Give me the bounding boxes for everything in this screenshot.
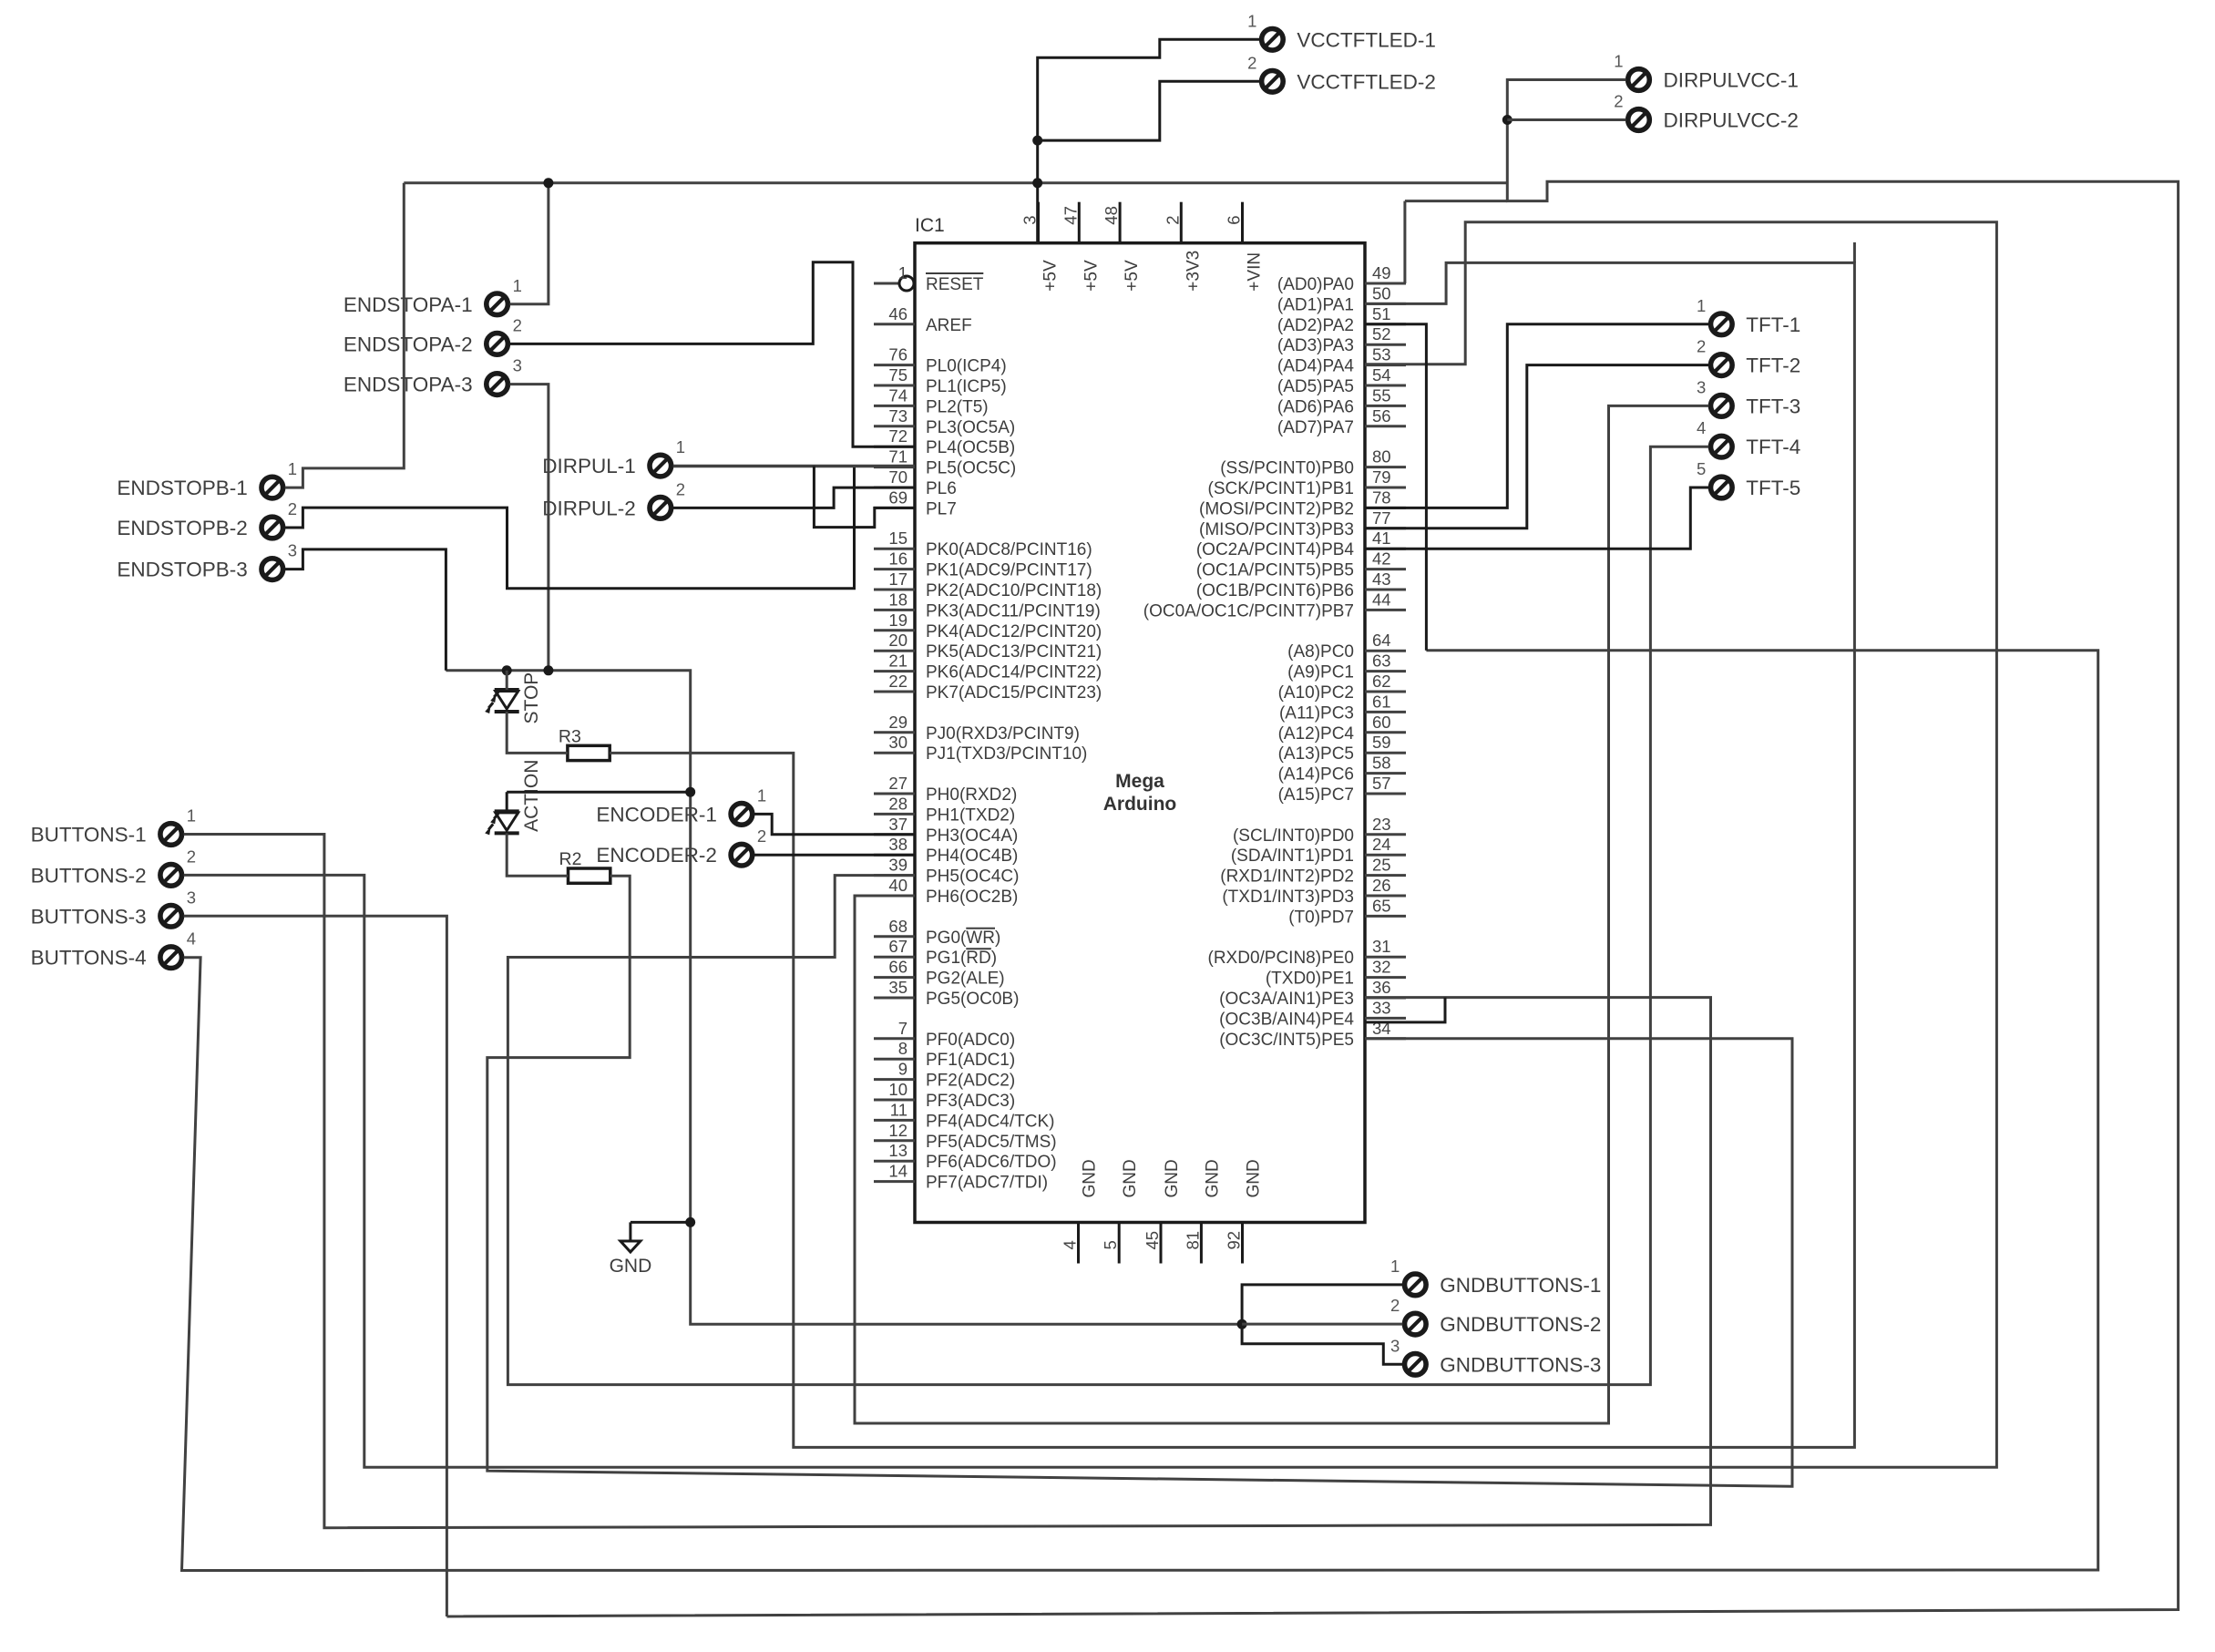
svg-text:7: 7	[898, 1019, 908, 1038]
svg-text:(A8)PC0: (A8)PC0	[1287, 642, 1354, 662]
svg-text:PF1(ADC1): PF1(ADC1)	[926, 1051, 1015, 1070]
svg-text:(OC1A/PCINT5)PB5: (OC1A/PCINT5)PB5	[1196, 561, 1354, 580]
svg-text:(OC1B/PCINT6)PB6: (OC1B/PCINT6)PB6	[1196, 581, 1354, 600]
svg-text:72: 72	[888, 426, 908, 446]
pin 29 PJ0(RXD3/PCINT9) left stub	[874, 731, 915, 734]
connector GNDBUTTONS-3	[1390, 1336, 1601, 1376]
pin 57 (A15)PC7 right stub	[1365, 793, 1406, 795]
svg-text:58: 58	[1372, 754, 1391, 773]
svg-text:ENDSTOPA-3: ENDSTOPA-3	[344, 374, 473, 396]
svg-text:1: 1	[898, 263, 908, 282]
svg-text:ENDSTOPA-2: ENDSTOPA-2	[344, 333, 473, 355]
connector ENDSTOPA-1	[344, 276, 522, 316]
pin 3 +5V top stub	[1037, 202, 1040, 243]
wire pin 51 down to pin64 line	[1365, 324, 1426, 651]
connector GNDBUTTONS-2	[1390, 1296, 1601, 1336]
svg-text:1: 1	[1247, 11, 1256, 30]
svg-text:ENDSTOPB-3: ENDSTOPB-3	[117, 559, 247, 581]
svg-text:PH0(RXD2): PH0(RXD2)	[926, 785, 1017, 805]
junction VCCTFTLED-2	[1032, 136, 1042, 146]
svg-text:PH4(OC4B): PH4(OC4B)	[926, 847, 1018, 866]
wire stub above pin50 junction	[1853, 242, 1856, 262]
svg-text:64: 64	[1372, 631, 1391, 650]
svg-text:9: 9	[898, 1060, 908, 1079]
pin 26 (TXD1/INT3)PD3 right stub	[1365, 895, 1406, 898]
svg-text:): )	[995, 929, 1000, 948]
svg-text:VCCTFTLED-2: VCCTFTLED-2	[1297, 70, 1436, 93]
svg-text:45: 45	[1143, 1231, 1162, 1250]
svg-text:PK6(ADC14/PCINT22): PK6(ADC14/PCINT22)	[926, 663, 1102, 682]
svg-text:(SCL/INT0)PD0: (SCL/INT0)PD0	[1233, 826, 1354, 846]
wire STOP LED to R3	[507, 712, 568, 753]
pin 36 (OC3A/AIN1)PE3 right stub	[1365, 997, 1406, 1000]
svg-text:TFT-2: TFT-2	[1746, 354, 1800, 377]
svg-text:55: 55	[1372, 385, 1391, 405]
svg-text:TFT-4: TFT-4	[1746, 436, 1800, 458]
pin 6 +VIN top stub	[1241, 202, 1244, 243]
pin 32 (TXD0)PE1 right stub	[1365, 976, 1406, 979]
svg-text:(AD3)PA3: (AD3)PA3	[1277, 336, 1354, 355]
pin 72 PL4(OC5B) left stub	[874, 446, 915, 448]
wire down to ACTION LED	[506, 792, 508, 811]
wire ENDSTOPB-2 riser	[285, 467, 855, 589]
svg-text:+5V: +5V	[1082, 260, 1101, 292]
svg-text:17: 17	[888, 569, 908, 589]
pin 53 (AD4)PA4 right stub	[1365, 364, 1406, 366]
resistor R2	[569, 868, 610, 883]
pin 7 PF0(ADC0) left stub	[874, 1037, 915, 1040]
svg-text:75: 75	[888, 365, 908, 385]
pin 2 +3V3 top stub	[1180, 202, 1183, 243]
svg-text:3: 3	[513, 356, 522, 375]
pin 21 PK6(ADC14/PCINT22) left stub	[874, 670, 915, 672]
svg-text:13: 13	[888, 1141, 908, 1160]
pin 92 GND bottom stub	[1241, 1223, 1244, 1264]
svg-text:18: 18	[888, 590, 908, 609]
svg-text:4: 4	[187, 929, 196, 949]
pin 68 PG0(!WR!) left stub	[874, 935, 915, 938]
junction ENDSTOPA-3/ground rail	[543, 665, 553, 675]
svg-text:GND: GND	[1163, 1159, 1182, 1197]
connector BUTTONS-3	[31, 888, 196, 928]
svg-text:PL3(OC5A): PL3(OC5A)	[926, 418, 1015, 437]
wire DIRPULVCC-2	[1507, 118, 1625, 121]
pin 33 (OC3B/AIN4)PE4 right stub	[1365, 1017, 1406, 1020]
svg-text:1: 1	[1614, 52, 1623, 71]
svg-text:63: 63	[1372, 652, 1391, 671]
svg-text:22: 22	[888, 672, 908, 691]
svg-text:28: 28	[888, 794, 908, 813]
pin 64 (A8)PC0 right stub	[1365, 650, 1406, 652]
pin 11 PF4(ADC4/TCK) left stub	[874, 1119, 915, 1122]
svg-text:PL2(T5): PL2(T5)	[926, 397, 989, 416]
svg-text:2: 2	[1247, 53, 1256, 72]
svg-text:PF3(ADC3): PF3(ADC3)	[926, 1092, 1015, 1111]
pin 55 (AD6)PA6 right stub	[1365, 405, 1406, 407]
svg-text:49: 49	[1372, 263, 1391, 282]
pin 16 PK1(ADC9/PCINT17) left stub	[874, 568, 915, 570]
svg-text:73: 73	[888, 406, 908, 426]
svg-text:RESET: RESET	[926, 275, 984, 294]
svg-text:2: 2	[1697, 337, 1706, 356]
wire ACTION LED to R2	[507, 833, 568, 876]
svg-text:R3: R3	[559, 726, 581, 746]
svg-text:DIRPUL-2: DIRPUL-2	[542, 497, 636, 519]
wire pin 39 to TFT-4	[508, 446, 1708, 1384]
svg-text:ENDSTOPA-1: ENDSTOPA-1	[344, 293, 473, 316]
pin 49 (AD0)PA0 right stub	[1365, 282, 1406, 285]
svg-text:(TXD1/INT3)PD3: (TXD1/INT3)PD3	[1222, 888, 1354, 907]
svg-text:PL0(ICP4): PL0(ICP4)	[926, 357, 1007, 376]
pin 12 PF5(ADC5/TMS) left stub	[874, 1139, 915, 1142]
pin 22 PK7(ADC15/PCINT23) left stub	[874, 691, 915, 693]
svg-text:70: 70	[888, 467, 908, 487]
connector BUTTONS-4	[31, 929, 196, 970]
wire ground rail	[446, 671, 1242, 1324]
svg-text:37: 37	[888, 815, 908, 834]
svg-text:1: 1	[757, 785, 766, 805]
junction STOP LED/ground rail	[502, 665, 512, 675]
svg-text:(A9)PC1: (A9)PC1	[1287, 663, 1354, 682]
svg-text:24: 24	[1372, 835, 1391, 854]
connector VCCTFTLED-1	[1247, 11, 1436, 51]
connector ENCODER-2	[596, 826, 766, 867]
pin 28 PH1(TXD2) left stub	[874, 813, 915, 816]
wire pin 33 jog to pin 36 line	[1365, 998, 1445, 1022]
svg-text:3: 3	[288, 541, 297, 560]
svg-text:BUTTONS-4: BUTTONS-4	[31, 947, 147, 970]
svg-text:2: 2	[676, 479, 685, 498]
pin 5 GND bottom stub	[1118, 1223, 1121, 1264]
svg-text:PL6: PL6	[926, 479, 957, 498]
svg-text:STOP: STOP	[521, 672, 542, 724]
svg-text:(A15)PC7: (A15)PC7	[1278, 785, 1354, 805]
svg-text:16: 16	[888, 549, 908, 569]
svg-text:(A10)PC2: (A10)PC2	[1278, 683, 1354, 703]
svg-text:(RXD1/INT2)PD2: (RXD1/INT2)PD2	[1220, 867, 1354, 887]
svg-text:56: 56	[1372, 406, 1391, 426]
pin 20 PK5(ADC13/PCINT21) left stub	[874, 650, 915, 652]
pin 35 PG5(OC0B) left stub	[874, 997, 915, 1000]
svg-text:47: 47	[1061, 206, 1080, 225]
pin 14 PF7(ADC7/TDI) left stub	[874, 1180, 915, 1183]
svg-text:57: 57	[1372, 774, 1391, 793]
svg-text:39: 39	[888, 856, 908, 875]
pin 62 (A10)PC2 right stub	[1365, 691, 1406, 693]
svg-text:BUTTONS-2: BUTTONS-2	[31, 864, 147, 887]
svg-text:Arduino: Arduino	[1103, 794, 1176, 815]
svg-text:(AD0)PA0: (AD0)PA0	[1277, 275, 1354, 294]
svg-text:46: 46	[888, 304, 908, 323]
svg-text:35: 35	[888, 978, 908, 997]
svg-text:66: 66	[888, 958, 908, 977]
svg-text:PG0(: PG0(	[926, 929, 967, 948]
wire GNDBUTTONS-2	[1242, 1323, 1402, 1326]
svg-text:(SDA/INT1)PD1: (SDA/INT1)PD1	[1231, 847, 1354, 866]
svg-text:PK0(ADC8/PCINT16): PK0(ADC8/PCINT16)	[926, 540, 1092, 559]
svg-text:TFT-3: TFT-3	[1746, 395, 1800, 417]
svg-text:(AD7)PA7: (AD7)PA7	[1277, 418, 1354, 437]
wire ENDSTOPA-2 to pin 72	[510, 262, 915, 447]
pin 54 (AD5)PA5 right stub	[1365, 385, 1406, 387]
svg-text:ENDSTOPB-1: ENDSTOPB-1	[117, 477, 247, 499]
svg-text:TFT-5: TFT-5	[1746, 477, 1800, 499]
wire GND symbol to rail	[631, 1221, 691, 1224]
svg-text:PK1(ADC9/PCINT17): PK1(ADC9/PCINT17)	[926, 561, 1092, 580]
svg-text:33: 33	[1372, 998, 1391, 1017]
svg-text:GND: GND	[610, 1256, 652, 1277]
svg-text:2: 2	[1614, 92, 1623, 111]
pin 51 (AD2)PA2 right stub	[1365, 323, 1406, 325]
wire DIRPULVCC-1 / +VIN rail to BUTTONS-3	[446, 80, 2178, 1617]
svg-text:1: 1	[513, 276, 522, 295]
svg-text:68: 68	[888, 917, 908, 936]
pin 46 AREF left stub	[874, 323, 915, 325]
svg-text:3: 3	[1697, 377, 1706, 396]
connector TFT-1	[1697, 296, 1800, 336]
pin 17 PK2(ADC10/PCINT18) left stub	[874, 589, 915, 591]
wire VCCTFTLED-2	[1038, 81, 1260, 140]
svg-text:11: 11	[890, 1100, 908, 1119]
pin 41 (OC2A/PCINT4)PB4 right stub	[1365, 548, 1406, 550]
pin 74 PL2(T5) left stub	[874, 405, 915, 407]
svg-text:51: 51	[1372, 304, 1391, 323]
svg-text:ENDSTOPB-2: ENDSTOPB-2	[117, 517, 247, 539]
pin 18 PK3(ADC11/PCINT19) left stub	[874, 609, 915, 611]
svg-text:(A14)PC6: (A14)PC6	[1278, 765, 1354, 785]
svg-text:54: 54	[1372, 365, 1391, 385]
svg-text:PL1(ICP5): PL1(ICP5)	[926, 377, 1007, 396]
svg-text:41: 41	[1372, 528, 1391, 548]
LED STOP	[496, 692, 518, 710]
svg-text:PG5(OC0B): PG5(OC0B)	[926, 990, 1019, 1009]
pin 40 PH6(OC2B) left stub	[874, 895, 915, 898]
svg-text:GND: GND	[1081, 1159, 1100, 1197]
svg-text:10: 10	[888, 1080, 908, 1099]
pin 80 (SS/PCINT0)PB0 right stub	[1365, 466, 1406, 468]
svg-text:(T0)PD7: (T0)PD7	[1288, 908, 1354, 927]
wire DIRPUL-2 to pin 70	[673, 487, 915, 508]
svg-text:2: 2	[1163, 215, 1182, 224]
svg-text:38: 38	[888, 835, 908, 854]
pin 13 PF6(ADC6/TDO) left stub	[874, 1160, 915, 1163]
svg-text:19: 19	[888, 611, 908, 630]
svg-text:Mega: Mega	[1115, 771, 1164, 792]
svg-text:2: 2	[187, 847, 196, 866]
junction GNDBUTTONS-2	[1237, 1319, 1247, 1329]
svg-text:PK4(ADC12/PCINT20): PK4(ADC12/PCINT20)	[926, 622, 1102, 641]
junction DIRPULVCC-2	[1502, 115, 1513, 125]
pin 8 PF1(ADC1) left stub	[874, 1058, 915, 1061]
pin 50 (AD1)PA1 right stub	[1365, 303, 1406, 305]
pin 67 PG1(!RD!) left stub	[874, 956, 915, 959]
connector DIRPUL-2	[542, 479, 685, 519]
pin 78 (MOSI/PCINT2)PB2 right stub	[1365, 507, 1406, 509]
LED ACTION	[496, 813, 518, 831]
svg-text:DIRPULVCC-2: DIRPULVCC-2	[1664, 109, 1799, 132]
svg-text:(OC3A/AIN1)PE3: (OC3A/AIN1)PE3	[1219, 990, 1354, 1009]
svg-text:76: 76	[888, 345, 908, 364]
svg-text:DIRPULVCC-1: DIRPULVCC-1	[1664, 69, 1799, 92]
svg-text:12: 12	[888, 1121, 908, 1140]
svg-text:4: 4	[1697, 418, 1706, 437]
svg-text:PK7(ADC15/PCINT23): PK7(ADC15/PCINT23)	[926, 683, 1102, 703]
pin 9 PF2(ADC2) left stub	[874, 1078, 915, 1081]
svg-text:ENCODER-2: ENCODER-2	[596, 844, 717, 867]
pin 75 PL1(ICP5) left stub	[874, 385, 915, 387]
svg-text:(AD1)PA1: (AD1)PA1	[1277, 295, 1354, 314]
svg-text:PF7(ADC7/TDI): PF7(ADC7/TDI)	[926, 1174, 1048, 1193]
connector ENDSTOPB-1	[117, 459, 297, 499]
svg-text:PG2(ALE): PG2(ALE)	[926, 970, 1005, 989]
svg-text:GND: GND	[1121, 1159, 1140, 1197]
svg-text:PH5(OC4C): PH5(OC4C)	[926, 867, 1019, 887]
svg-text:PF2(ADC2): PF2(ADC2)	[926, 1072, 1015, 1091]
wire ENCODER-1 to pin 37	[754, 814, 915, 834]
svg-text:(OC0A/OC1C/PCINT7)PB7: (OC0A/OC1C/PCINT7)PB7	[1143, 601, 1354, 621]
pin 39 PH5(OC4C) left stub	[874, 874, 915, 877]
wire ENDSTOPA-1 to +5V rail	[404, 183, 549, 304]
svg-text:3: 3	[1390, 1336, 1400, 1355]
wire TFT-5 to pin 41	[1365, 487, 1708, 549]
wire R2 to pin 34	[487, 876, 1792, 1486]
svg-text:5: 5	[1101, 1240, 1120, 1249]
svg-text:BUTTONS-1: BUTTONS-1	[31, 824, 147, 847]
svg-text:4: 4	[1061, 1240, 1080, 1249]
wire pin 40 to TFT-3	[855, 405, 1708, 1423]
ground symbol GND	[629, 1222, 631, 1241]
svg-text:2: 2	[513, 315, 522, 334]
pin 44 (OC0A/OC1C/PCINT7)PB7 right stub	[1365, 609, 1406, 611]
pin 25 (RXD1/INT2)PD2 right stub	[1365, 874, 1406, 877]
wire ENDSTOPB-3	[285, 549, 446, 671]
pin 66 PG2(ALE) left stub	[874, 976, 915, 979]
pin 37 PH3(OC4A) left stub	[874, 833, 915, 836]
svg-text:WR: WR	[966, 929, 995, 948]
svg-text:1: 1	[288, 459, 297, 478]
svg-text:+5V: +5V	[1041, 260, 1061, 292]
svg-text:(AD5)PA5: (AD5)PA5	[1277, 377, 1354, 396]
svg-text:3: 3	[187, 888, 196, 907]
svg-text:27: 27	[888, 774, 908, 793]
svg-text:1: 1	[1390, 1257, 1400, 1276]
svg-text:PK3(ADC11/PCINT19): PK3(ADC11/PCINT19)	[926, 601, 1101, 621]
pin 61 (A11)PC3 right stub	[1365, 711, 1406, 713]
wire BUTTONS-1 to pin 36	[184, 835, 1711, 1528]
svg-text:67: 67	[888, 937, 908, 956]
svg-text:65: 65	[1372, 896, 1391, 915]
connector TFT-3	[1697, 377, 1800, 417]
wire +5V rail to ENDSTOPB-1	[285, 183, 405, 487]
pin 79 (SCK/PCINT1)PB1 right stub	[1365, 487, 1406, 489]
pin 23 (SCL/INT0)PD0 right stub	[1365, 833, 1406, 836]
connector TFT-5	[1697, 459, 1800, 499]
wire BUTTONS-2 to pin 53	[184, 222, 1997, 1467]
svg-text:42: 42	[1372, 549, 1391, 569]
svg-text:53: 53	[1372, 345, 1391, 364]
connector VCCTFTLED-2	[1247, 53, 1436, 93]
connector ENDSTOPB-2	[117, 499, 297, 539]
pin 65 (T0)PD7 right stub	[1365, 915, 1406, 918]
pin 70 PL6 left stub	[874, 487, 915, 489]
wire TFT-2 to pin 77	[1365, 365, 1708, 528]
svg-text:PF0(ADC0): PF0(ADC0)	[926, 1031, 1015, 1050]
connector BUTTONS-1	[31, 806, 196, 847]
svg-text:+VIN: +VIN	[1246, 252, 1265, 292]
svg-text:(A13)PC5: (A13)PC5	[1278, 744, 1354, 764]
pin 60 (A12)PC4 right stub	[1365, 731, 1406, 734]
junction ACTION LED/ground rail	[685, 787, 695, 797]
svg-text:(AD4)PA4: (AD4)PA4	[1277, 357, 1355, 376]
wire VCCTFTLED-1 to pin 3	[1038, 39, 1260, 242]
svg-text:GND: GND	[1245, 1159, 1264, 1197]
IC U1 Arduino Mega body	[915, 243, 1365, 1223]
connector TFT-2	[1697, 337, 1800, 377]
svg-text:ENCODER-1: ENCODER-1	[596, 803, 717, 826]
svg-text:36: 36	[1372, 978, 1391, 997]
wire ACTION LED anode to ground rail	[507, 791, 691, 794]
svg-text:6: 6	[1225, 215, 1244, 224]
svg-text:PL5(OC5C): PL5(OC5C)	[926, 459, 1016, 478]
svg-text:60: 60	[1372, 713, 1391, 732]
svg-text:PK5(ADC13/PCINT21): PK5(ADC13/PCINT21)	[926, 642, 1102, 662]
pin 10 PF3(ADC3) left stub	[874, 1099, 915, 1102]
svg-text:1: 1	[1697, 296, 1706, 315]
svg-text:AREF: AREF	[926, 316, 972, 335]
svg-text:23: 23	[1372, 815, 1391, 834]
connector DIRPULVCC-1	[1614, 52, 1799, 92]
pin 48 +5V top stub	[1119, 202, 1122, 243]
pin 81 GND bottom stub	[1200, 1223, 1203, 1264]
svg-text:20: 20	[888, 631, 908, 650]
svg-text:PK2(ADC10/PCINT18): PK2(ADC10/PCINT18)	[926, 581, 1102, 600]
svg-text:29: 29	[888, 713, 908, 732]
wire BUTTONS-4 to pin 64	[182, 651, 2098, 1571]
connector BUTTONS-2	[31, 847, 196, 887]
junction +5V/pin3	[1032, 178, 1042, 188]
svg-text:74: 74	[888, 385, 908, 405]
svg-text:(OC3C/INT5)PE5: (OC3C/INT5)PE5	[1219, 1031, 1354, 1050]
connector ENDSTOPA-3	[344, 356, 522, 396]
pin 71 PL5(OC5C) left stub	[874, 466, 915, 468]
svg-text:IC1: IC1	[915, 215, 945, 236]
svg-text:GND: GND	[1203, 1159, 1222, 1197]
svg-text:62: 62	[1372, 672, 1391, 691]
svg-text:PJ0(RXD3/PCINT9): PJ0(RXD3/PCINT9)	[926, 724, 1080, 744]
connector DIRPULVCC-2	[1614, 92, 1799, 132]
junction +5V/ENDSTOPA-1	[543, 178, 553, 188]
svg-text:(SCK/PCINT1)PB1: (SCK/PCINT1)PB1	[1208, 479, 1354, 498]
pin 56 (AD7)PA7 right stub	[1365, 425, 1406, 427]
pin 47 +5V top stub	[1078, 202, 1081, 243]
svg-text:PF4(ADC4/TCK): PF4(ADC4/TCK)	[926, 1112, 1054, 1131]
wire GNDBUTTONS-1/3	[1242, 1285, 1402, 1364]
pin 69 PL7 left stub	[874, 507, 915, 509]
svg-text:DIRPUL-1: DIRPUL-1	[542, 455, 636, 477]
svg-text:TFT-1: TFT-1	[1746, 313, 1800, 336]
wire BUTTONS-3	[184, 916, 447, 1616]
wire ENCODER-2 to pin 38	[754, 854, 915, 857]
pin 58 (A14)PC6 right stub	[1365, 772, 1406, 775]
connector ENDSTOPA-2	[344, 315, 522, 355]
junction GND symbol	[685, 1217, 695, 1227]
svg-text:79: 79	[1372, 467, 1391, 487]
svg-text:(MOSI/PCINT2)PB2: (MOSI/PCINT2)PB2	[1199, 499, 1354, 518]
svg-text:81: 81	[1183, 1231, 1202, 1250]
pin 38 PH4(OC4B) left stub	[874, 854, 915, 857]
pin 59 (A13)PC5 right stub	[1365, 752, 1406, 754]
svg-text:(SS/PCINT0)PB0: (SS/PCINT0)PB0	[1220, 459, 1354, 478]
